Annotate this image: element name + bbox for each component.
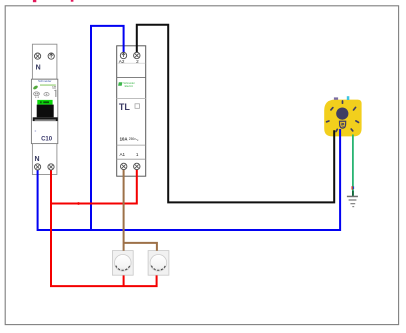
terminal screw: breaker bottom L	[48, 164, 54, 170]
terminal screw: breaker top L	[48, 53, 54, 59]
wire: red stub to pushbutton S1	[123, 275, 125, 286]
circuit breaker Q1 (Schneider iC60N C10, 1P+N)	[31, 44, 57, 174]
wire: brown coil wire from relay A1 to S1	[123, 167, 125, 251]
svg-text:Schneider: Schneider	[38, 79, 52, 83]
terminal screw: relay 1	[134, 163, 140, 169]
value label 10A 250V	[120, 136, 139, 142]
wire: brown branch to S2	[124, 243, 157, 251]
junction on red line	[77, 202, 80, 205]
svg-text:A2: A2	[119, 59, 125, 64]
latching relay U1 (Schneider TL 16A)	[117, 46, 146, 176]
lamp LA1 body	[324, 96, 361, 136]
svg-text:Electric: Electric	[125, 84, 134, 88]
svg-text:N: N	[36, 65, 41, 72]
lamp LA1 bulb icon	[327, 101, 359, 132]
wire: blue neutral from relay A2 up-over-down to neutral bus	[91, 26, 124, 230]
wire: red from breaker down to pushbutton bus	[51, 167, 157, 286]
wire: blue neutral bus from breaker N to lamp	[38, 129, 341, 230]
wire: black switched line from relay pin 2 to lamp	[137, 25, 334, 203]
svg-text:1: 1	[136, 152, 139, 157]
svg-text:C10: C10	[41, 137, 53, 143]
svg-text:N: N	[34, 156, 39, 163]
svg-text:A1: A1	[119, 152, 125, 157]
ground symbol	[347, 196, 358, 208]
svg-text:∿: ∿	[136, 138, 139, 142]
terminal screw: relay A1	[121, 163, 127, 169]
terminal screw: relay A2	[120, 52, 126, 58]
svg-text:TL: TL	[119, 102, 130, 112]
pushbutton S2	[148, 251, 169, 276]
terminal screw: breaker top N	[35, 53, 41, 59]
terminal screw: breaker bottom N	[35, 164, 41, 170]
svg-text:10A: 10A	[120, 136, 128, 141]
terminal screw: relay 2	[134, 52, 140, 58]
wire: red line from relay pin 1 to breaker feed	[51, 167, 137, 204]
pushbutton S1	[112, 251, 133, 276]
wire: green earth from lamp to ground	[352, 135, 354, 196]
svg-text:2: 2	[136, 59, 139, 64]
